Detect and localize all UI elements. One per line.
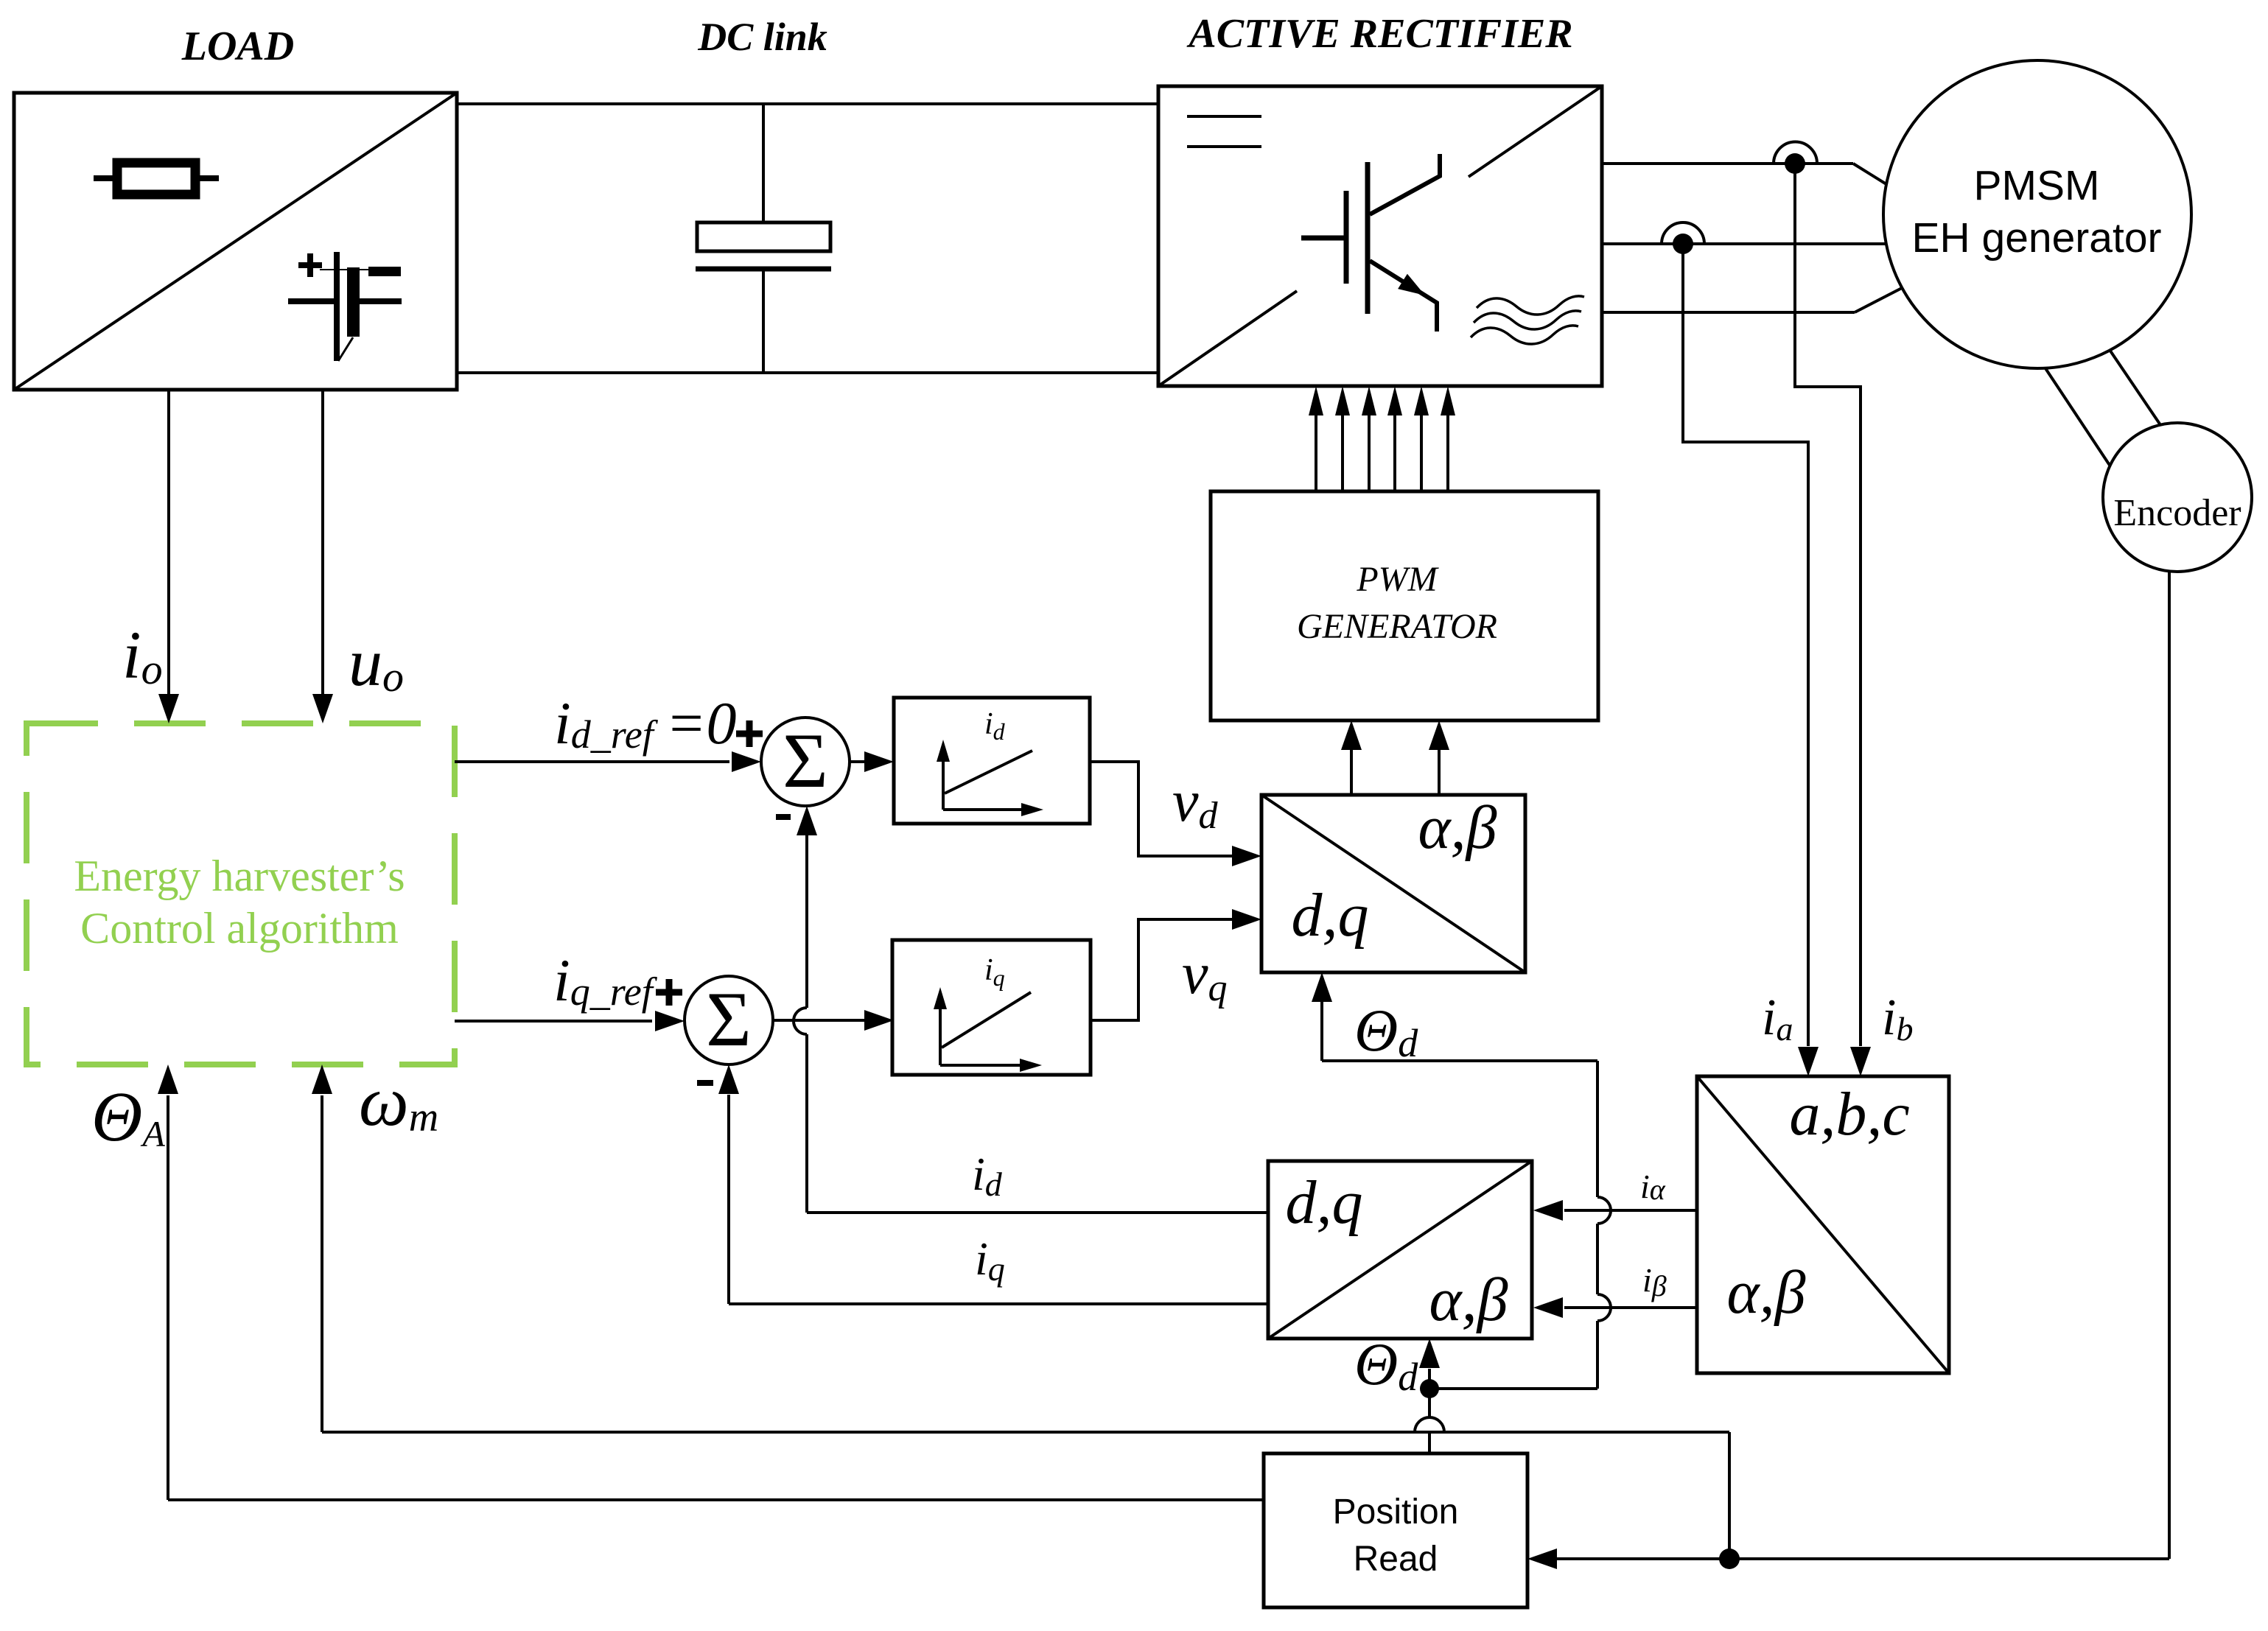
svg-text:Encoder: Encoder: [2113, 492, 2241, 534]
svg-text:d,q: d,q: [1292, 881, 1369, 950]
svg-text:d,q: d,q: [1286, 1168, 1363, 1237]
svg-text:ACTIVE RECTIFIER: ACTIVE RECTIFIER: [1186, 11, 1572, 57]
svg-text:α,β: α,β: [1429, 1266, 1508, 1334]
svg-text:DC link: DC link: [697, 15, 827, 59]
svg-text:Σ: Σ: [783, 718, 828, 804]
svg-text:α,β: α,β: [1727, 1258, 1806, 1327]
svg-text:Read: Read: [1354, 1540, 1438, 1579]
svg-text:Σ: Σ: [706, 976, 752, 1062]
svg-text:Control algorithm: Control algorithm: [80, 904, 399, 953]
svg-text:EH generator: EH generator: [1911, 214, 2161, 262]
svg-text:GENERATOR: GENERATOR: [1297, 607, 1497, 646]
svg-text:α,β: α,β: [1418, 793, 1497, 862]
svg-text:PMSM: PMSM: [1974, 162, 2100, 209]
svg-text:Energy harvester’s: Energy harvester’s: [74, 852, 405, 900]
svg-text:Position: Position: [1333, 1493, 1459, 1532]
svg-text:PWM: PWM: [1356, 560, 1439, 599]
svg-text:iα: iα: [1640, 1168, 1666, 1206]
svg-text:a,b,c: a,b,c: [1789, 1080, 1909, 1148]
svg-text:LOAD: LOAD: [181, 24, 294, 69]
